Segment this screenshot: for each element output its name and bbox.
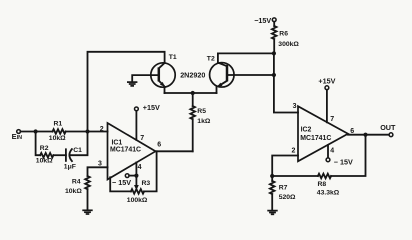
wire pin 3 IC1	[88, 167, 108, 176]
wire pin 2 IC2 to R7	[272, 156, 298, 181]
svg-text:R1: R1	[54, 120, 63, 127]
wire T2 collector to R6 node	[218, 53, 274, 62]
svg-text:10kΩ: 10kΩ	[49, 135, 66, 142]
svg-text:3: 3	[293, 103, 297, 110]
svg-text:− 15V: − 15V	[334, 157, 353, 166]
output terminal OUT	[380, 123, 396, 136]
wire R1 to summing node	[66, 131, 108, 133]
resistor R1	[49, 120, 66, 142]
+15V terminal IC2	[318, 76, 335, 89]
svg-text:3: 3	[98, 160, 102, 167]
svg-text:R5: R5	[197, 108, 206, 115]
pin 6 label IC1	[157, 142, 161, 149]
svg-text:MC1741C: MC1741C	[110, 146, 141, 153]
pin 7 IC1 to +15V	[136, 111, 144, 142]
resistor R7	[270, 181, 296, 210]
svg-text:R6: R6	[279, 31, 288, 38]
svg-text:4: 4	[138, 164, 142, 171]
svg-text:+15V: +15V	[143, 103, 160, 112]
wire R2 to C1	[53, 154, 66, 156]
svg-text:10kΩ: 10kΩ	[36, 158, 53, 165]
svg-text:7: 7	[330, 116, 334, 123]
svg-text:300kΩ: 300kΩ	[278, 41, 299, 48]
resistor R8 feedback	[272, 135, 365, 197]
pin 3 label IC2	[293, 103, 297, 110]
pin 7 IC2 to +15V	[327, 90, 334, 123]
svg-text:T1: T1	[169, 54, 177, 61]
svg-text:2N2920: 2N2920	[180, 71, 205, 80]
junction T2 base at R6 line	[272, 73, 276, 77]
svg-text:−15V: −15V	[254, 16, 271, 25]
ground R7	[267, 211, 277, 215]
resistor R4	[65, 176, 90, 210]
wire emitter rail	[165, 92, 217, 94]
svg-text:1μF: 1μF	[64, 163, 76, 170]
svg-text:2: 2	[100, 126, 104, 133]
svg-text:520Ω: 520Ω	[279, 194, 296, 201]
svg-text:− 15V: − 15V	[112, 178, 131, 187]
ground R4	[82, 210, 92, 214]
-15V terminal top	[254, 16, 276, 25]
svg-text:4: 4	[330, 148, 334, 155]
wiper arrow R3	[134, 185, 139, 190]
wire R6 to IC2 pin 3	[274, 39, 298, 112]
capacitor C1	[64, 147, 82, 171]
op-amp IC1	[108, 123, 156, 180]
wire T1 base to ground	[132, 75, 159, 82]
junction T2 collector at R6 line	[272, 51, 276, 55]
ground T1 base	[127, 82, 137, 86]
svg-text:R3: R3	[142, 180, 151, 187]
potentiometer R3	[110, 151, 156, 204]
wire feedback from T1 collector to summing node	[88, 52, 165, 132]
svg-text:T2: T2	[207, 55, 215, 62]
pin 4 IC2 to -15V	[328, 145, 334, 158]
wire IC1 output pin 6 to R5	[156, 150, 193, 152]
svg-text:10kΩ: 10kΩ	[65, 188, 82, 195]
transistor T1	[151, 54, 177, 93]
-15V terminal IC2	[326, 157, 353, 166]
svg-text:R4: R4	[72, 178, 81, 185]
transistor T2	[207, 55, 234, 93]
wire C1 to summing node	[70, 132, 88, 156]
svg-text:1kΩ: 1kΩ	[197, 118, 211, 125]
svg-text:R8: R8	[318, 181, 327, 188]
pin 2 label IC1	[100, 126, 104, 133]
svg-text:+15V: +15V	[318, 76, 335, 85]
label 2N2920	[180, 71, 205, 80]
junction input node	[34, 129, 38, 133]
resistor R2	[36, 145, 54, 164]
input terminal Ein	[12, 130, 23, 141]
svg-text:IC2: IC2	[301, 127, 312, 134]
junction pin4 -15V	[134, 174, 138, 178]
wire T2 base to R6 line	[227, 74, 274, 76]
svg-text:R2: R2	[40, 145, 49, 152]
pin 6 label IC2	[350, 128, 354, 135]
junction emitter rail	[191, 91, 195, 95]
svg-text:C1: C1	[73, 147, 82, 154]
pin 2 label IC2	[292, 148, 296, 155]
svg-text:OUT: OUT	[380, 123, 396, 132]
svg-text:R7: R7	[279, 185, 288, 192]
svg-text:100kΩ: 100kΩ	[127, 197, 148, 204]
+15V terminal IC1	[135, 103, 160, 112]
svg-text:7: 7	[140, 135, 144, 142]
svg-text:MC1741C: MC1741C	[300, 135, 331, 142]
junction R7 R8	[270, 174, 274, 178]
svg-text:43.3kΩ: 43.3kΩ	[317, 190, 340, 197]
junction output feedback	[363, 133, 367, 137]
wire IC2 output to OUT	[348, 134, 389, 136]
resistor R6	[272, 22, 300, 49]
junction summing node pin 2	[85, 129, 89, 133]
pin 4 IC1	[136, 162, 141, 185]
resistor R5	[190, 93, 210, 151]
wire Ein to input node	[21, 131, 53, 133]
pin 3 label IC1	[98, 160, 102, 167]
wire input node down to R2	[36, 132, 41, 156]
svg-text:6: 6	[157, 142, 161, 149]
op-amp IC2	[298, 106, 348, 161]
-15V terminal IC1	[112, 174, 136, 187]
svg-text:2: 2	[292, 148, 296, 155]
